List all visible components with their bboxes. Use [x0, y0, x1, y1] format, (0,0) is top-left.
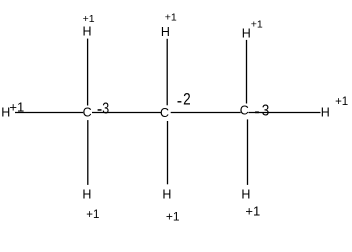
- atom C3: [240, 104, 249, 118]
- svg-text:+1: +1: [9, 99, 24, 114]
- wire bond C3 up to H: [246, 40, 248, 104]
- svg-text:+1: +1: [166, 209, 180, 223]
- wire bond H-left to C1: [15, 112, 83, 114]
- atom H bottom-left: [82, 187, 91, 201]
- wire bond C3 down to H: [247, 119, 249, 184]
- wire bond C2 down to H: [167, 121, 169, 184]
- charge +1 of H bottom-middle: [166, 209, 180, 223]
- atom H bottom-right: [241, 187, 250, 201]
- charge +1 of H right: [335, 96, 348, 108]
- atom C2: [160, 106, 169, 120]
- wire bond C1 down to H: [87, 120, 89, 185]
- atom H left: [1, 106, 10, 120]
- oxidation digit 2 of C2: [183, 90, 191, 109]
- svg-text:C: C: [240, 104, 249, 118]
- svg-text:+1: +1: [83, 13, 95, 25]
- svg-text:+1: +1: [86, 209, 99, 221]
- svg-text:H: H: [82, 187, 91, 201]
- atom H top-left: [83, 24, 92, 38]
- charge +1 of H bottom-left: [86, 209, 99, 221]
- svg-text:+1: +1: [251, 18, 263, 30]
- svg-text:H: H: [162, 187, 171, 201]
- svg-text:H: H: [321, 105, 330, 119]
- wire bond C1 to C2: [92, 112, 161, 114]
- svg-text:2: 2: [183, 90, 191, 109]
- atom H top-middle: [161, 25, 170, 39]
- wire bond C2 up to H: [166, 39, 168, 106]
- wire bond C3 to H-right: [249, 112, 321, 114]
- svg-text:H: H: [242, 27, 251, 41]
- wire bond C1 up to H: [87, 39, 89, 106]
- svg-text:H: H: [83, 24, 92, 38]
- oxidation digit 3 of C3: [262, 103, 270, 120]
- charge +1 of H bottom-right: [245, 204, 260, 219]
- svg-text:H: H: [161, 25, 170, 39]
- svg-text:H: H: [241, 187, 250, 201]
- atom H top-right: [242, 27, 251, 41]
- svg-text:3: 3: [102, 100, 109, 118]
- charge +1 of H top-right: [251, 18, 263, 30]
- charge +1 of H left: [9, 99, 24, 114]
- wire bond C2 to C3: [171, 112, 241, 114]
- atom H right: [321, 105, 330, 119]
- svg-text:+1: +1: [335, 96, 348, 108]
- svg-text:+1: +1: [165, 11, 177, 23]
- svg-text:3: 3: [262, 103, 270, 120]
- svg-text:C: C: [83, 105, 92, 119]
- atom C1: [83, 105, 92, 119]
- atom H bottom-middle: [162, 187, 171, 201]
- oxidation minus of C2: [178, 101, 182, 102]
- oxidation minus of C3: [255, 111, 259, 113]
- oxidation digit 3 of C1: [102, 100, 109, 118]
- charge +1 of H top-middle: [165, 11, 177, 23]
- oxidation minus of C1: [98, 109, 102, 111]
- charge +1 of H top-left: [83, 13, 95, 25]
- svg-text:C: C: [160, 106, 169, 120]
- svg-text:+1: +1: [245, 204, 260, 219]
